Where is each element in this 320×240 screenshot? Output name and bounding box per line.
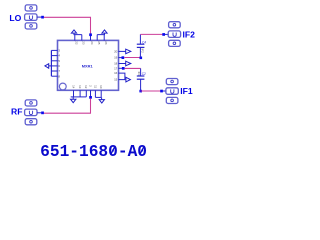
- wire IF2 net pin2 to C4 (pink): [124, 57, 140, 59]
- svg-text:24: 24: [90, 41, 94, 45]
- junction LO pad: [41, 16, 44, 19]
- svg-text:3: 3: [58, 49, 60, 53]
- capacitor C4: [137, 46, 145, 48]
- svg-text:17: 17: [114, 66, 118, 70]
- wire RF pad stub: [37, 112, 41, 114]
- wire LO net (pink): [44, 17, 91, 34]
- ground arrow bottom-right: [101, 97, 103, 99]
- junction LO at top pin: [89, 33, 92, 36]
- svg-text:6: 6: [58, 64, 60, 68]
- svg-text:IF2: IF2: [140, 49, 144, 53]
- svg-text:LO: LO: [9, 13, 21, 23]
- svg-text:20: 20: [114, 49, 118, 53]
- wire top bracket left: [74, 33, 82, 35]
- connector IF1 pad 1: [166, 79, 178, 85]
- wire top pin stubs: [75, 35, 104, 41]
- wire left pin stubs: [51, 50, 57, 76]
- capacitor C2: [137, 75, 145, 77]
- connector RF pad 3: [25, 119, 37, 125]
- wire C4 lower lead: [139, 48, 141, 58]
- connector IF1 pad 2 (signal): [166, 88, 178, 95]
- svg-text:8: 8: [58, 74, 60, 78]
- connector IF2 pad 2 (signal): [168, 31, 180, 38]
- svg-text:7: 7: [58, 69, 60, 73]
- svg-text:C2: C2: [142, 72, 146, 76]
- junction right pin4: [122, 67, 125, 70]
- connector LO pad 3: [25, 23, 37, 29]
- svg-text:5: 5: [58, 59, 60, 63]
- wire bottom bracket left: [71, 96, 87, 98]
- connector RF pad 2 (signal): [25, 109, 37, 116]
- junction RF at bottom pin: [89, 96, 92, 99]
- junction IF1: [160, 90, 163, 93]
- wire bottom pin stubs: [74, 90, 102, 97]
- wire left bus: [50, 50, 52, 76]
- connector LO pad 1: [25, 5, 37, 11]
- IC U1 pin-1 marker circle: [59, 83, 66, 90]
- svg-text:26: 26: [104, 41, 108, 45]
- svg-text:14: 14: [71, 85, 75, 89]
- power arrow top-right: [102, 30, 107, 33]
- wire C4 upper lead: [139, 34, 141, 44]
- junction C2-IF1 wire: [139, 90, 142, 93]
- wire right pin stubs: [118, 51, 125, 68]
- wire bottom bracket right: [95, 96, 101, 98]
- connector IF1 pad 3: [166, 97, 178, 103]
- slash in zero of A0: [140, 146, 144, 155]
- right pin numbers: [114, 49, 118, 81]
- connector IF2 pad 3: [169, 40, 181, 46]
- svg-text:15: 15: [114, 78, 118, 82]
- svg-text:13: 13: [78, 85, 82, 89]
- connector IF2 pad 1: [169, 22, 181, 28]
- wire C2 lower lead: [140, 79, 142, 91]
- svg-text:C4: C4: [142, 40, 146, 44]
- wire top bracket right: [97, 33, 104, 35]
- power arrow top-left: [71, 30, 76, 33]
- junction RF pad: [41, 112, 44, 115]
- svg-text:IF2: IF2: [183, 29, 196, 39]
- svg-text:10: 10: [99, 85, 103, 89]
- svg-text:18: 18: [114, 62, 118, 66]
- connector RF pad 1: [25, 100, 37, 106]
- bottom pin numbers: [71, 85, 103, 89]
- IC U1 body: [58, 40, 119, 90]
- svg-text:16: 16: [114, 71, 118, 75]
- power arrow left: [49, 65, 52, 67]
- connector LO pad 2 (signal): [25, 14, 37, 21]
- slash in zero of 1680: [111, 146, 115, 155]
- svg-text:19: 19: [114, 56, 118, 60]
- svg-text:651-1680-A0: 651-1680-A0: [40, 143, 147, 161]
- svg-text:4: 4: [58, 54, 60, 58]
- wire IF1 net pin4 to C2 (pink): [125, 67, 141, 69]
- wire C4 to IF2 pad (pink): [140, 33, 162, 35]
- junction right pin2: [122, 56, 125, 59]
- top pin numbers: [75, 41, 108, 45]
- wire IF1 pad stub: [163, 90, 167, 92]
- wire IF2 pad stub: [165, 33, 169, 35]
- svg-text:22: 22: [75, 41, 79, 45]
- power arrow right pin1: [126, 49, 131, 54]
- wire C2 to IF1 pad (pink): [141, 90, 161, 92]
- wire LO pad stub: [37, 16, 41, 18]
- junction C4-IF2 wire: [140, 57, 143, 60]
- left pin numbers: [58, 49, 60, 79]
- svg-text:23: 23: [82, 41, 86, 45]
- svg-text:RF: RF: [11, 106, 22, 116]
- svg-text:IF1: IF1: [180, 86, 193, 96]
- ground arrow bottom-left: [72, 97, 74, 99]
- wire C2 upper lead: [140, 68, 142, 75]
- svg-text:11: 11: [93, 85, 97, 88]
- svg-text:12: 12: [84, 85, 88, 89]
- svg-text:25: 25: [97, 41, 101, 45]
- wire right bracket pins 5-6: [118, 73, 125, 80]
- power arrow right pin6: [126, 77, 130, 82]
- junction IF2: [162, 33, 165, 36]
- svg-text:MXR1: MXR1: [82, 63, 94, 68]
- wire RF net (pink): [44, 98, 91, 113]
- power arrow right pin3: [126, 61, 131, 66]
